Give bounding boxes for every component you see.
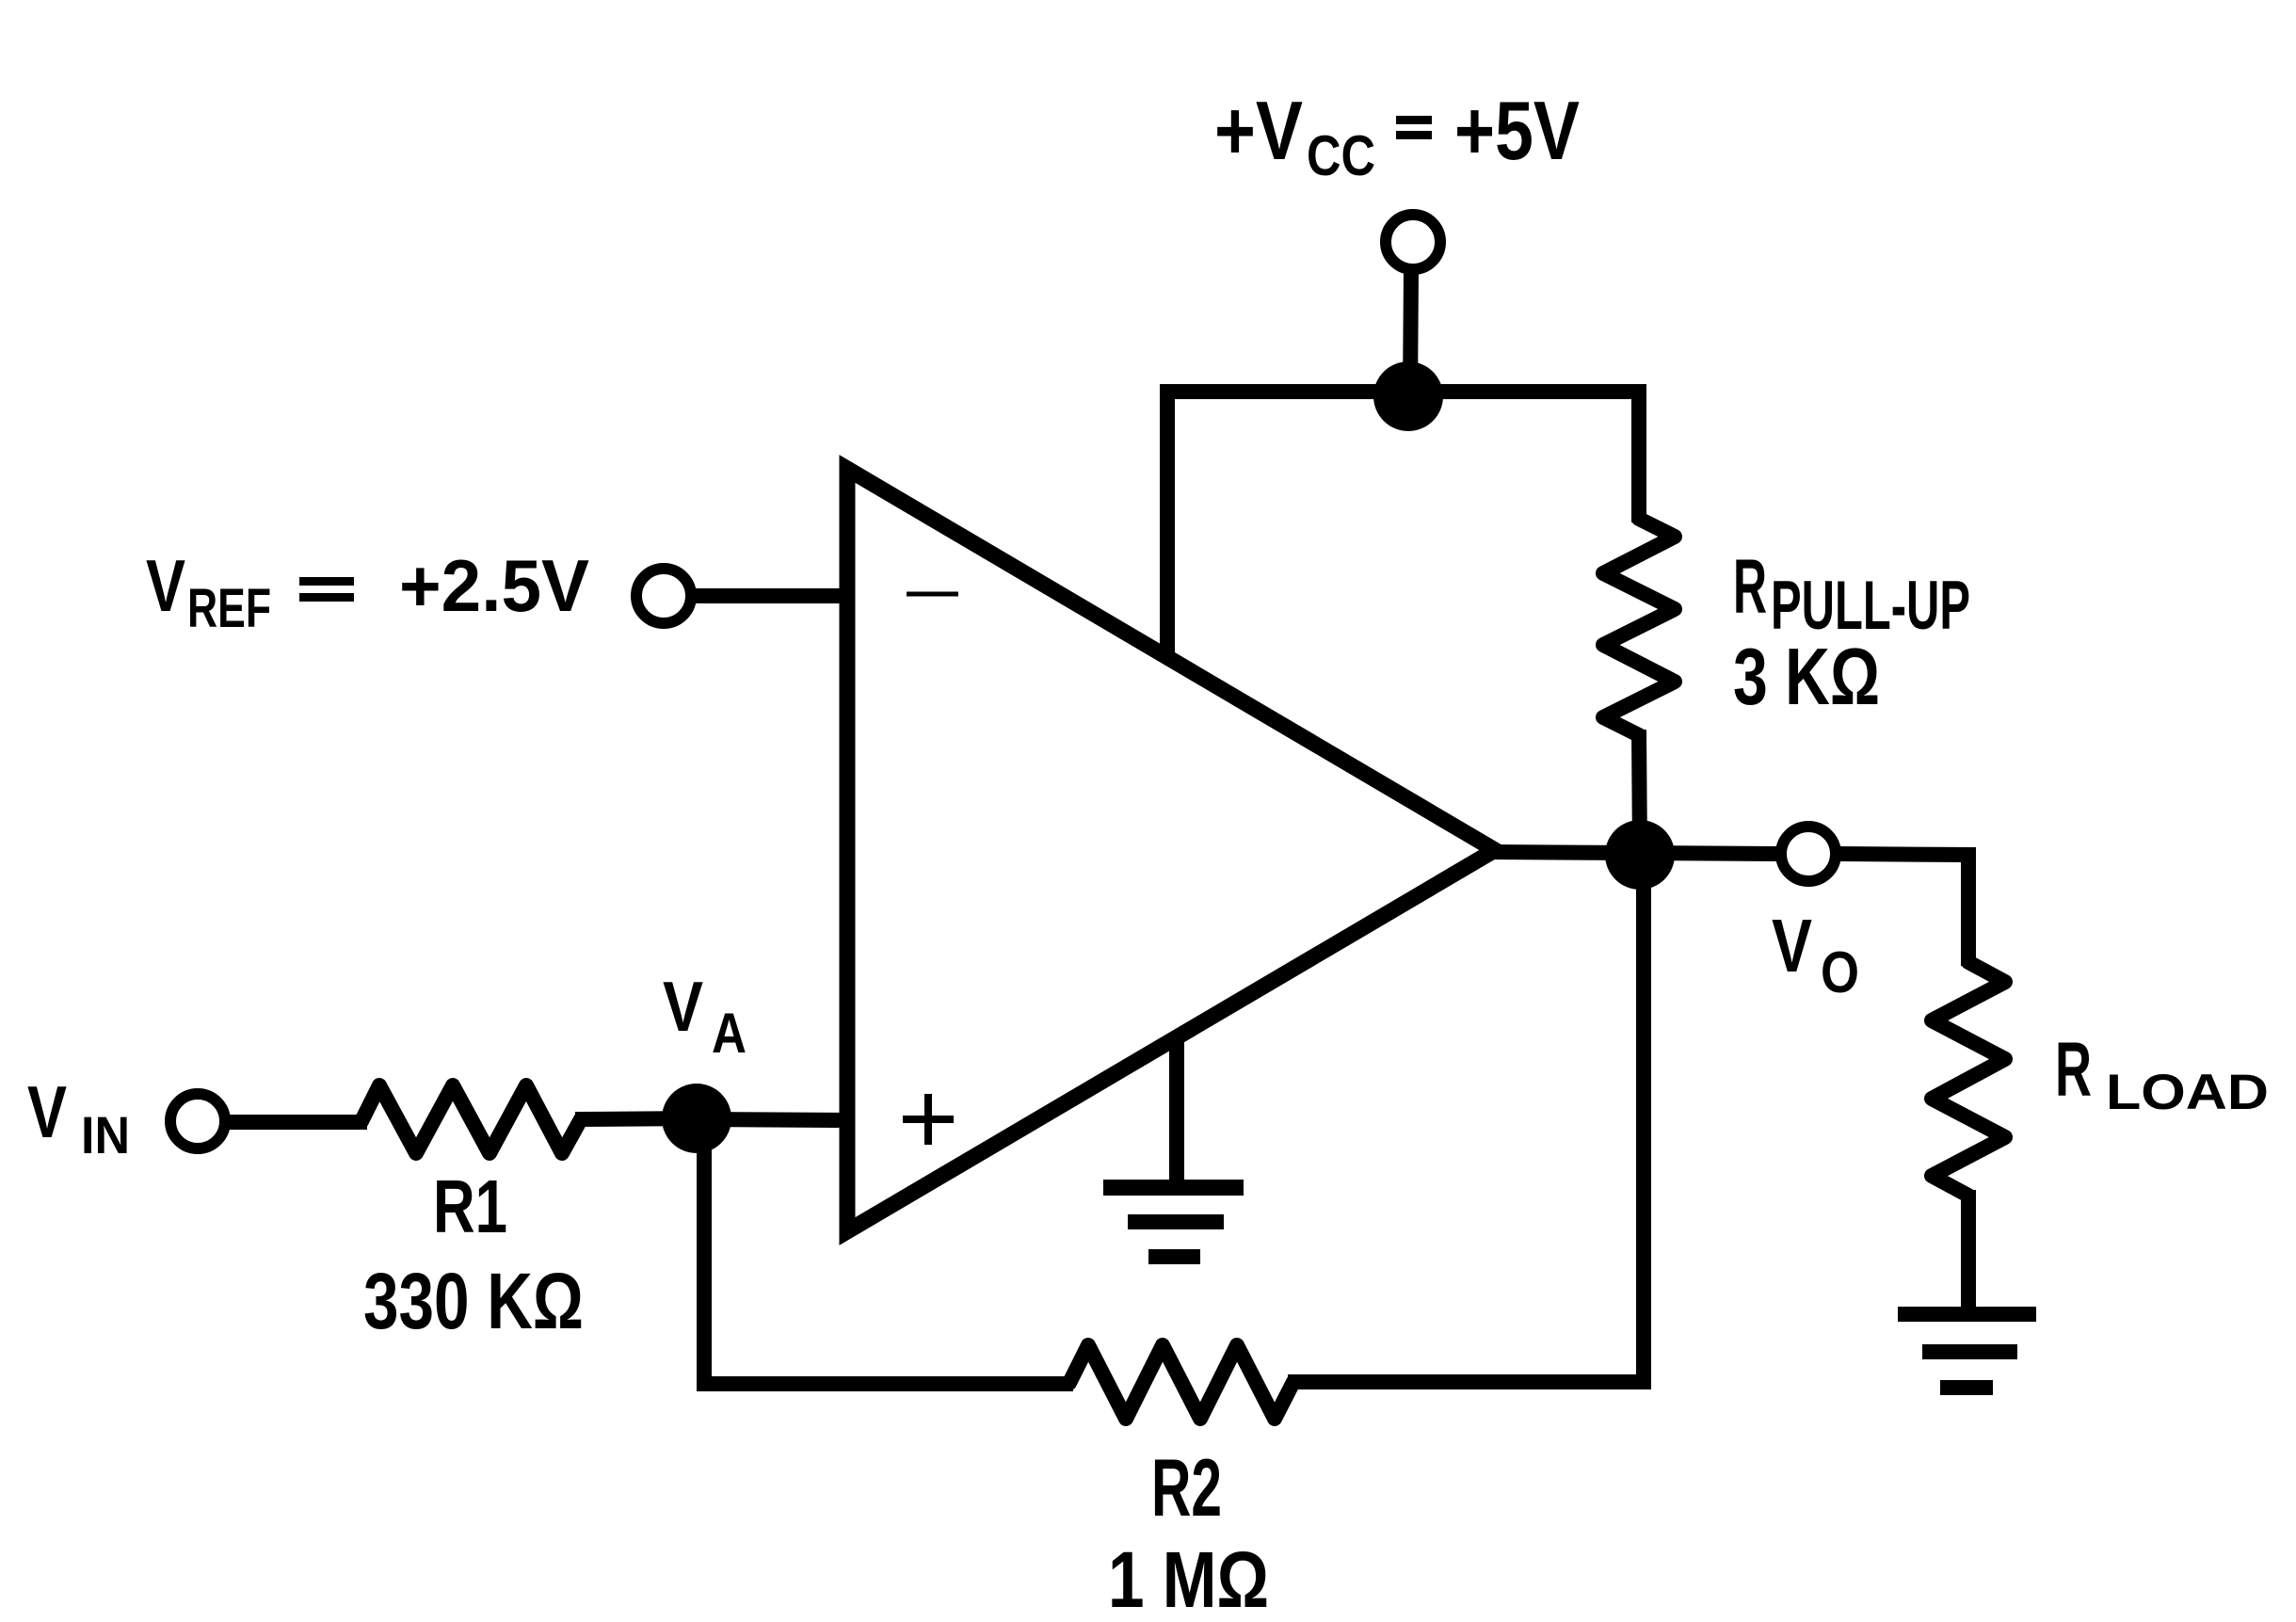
svg-text:R: R bbox=[2055, 1027, 2092, 1113]
svg-text:330 KΩ: 330 KΩ bbox=[363, 1257, 584, 1345]
svg-text:1 MΩ: 1 MΩ bbox=[1108, 1535, 1269, 1622]
svg-text:R2: R2 bbox=[1151, 1443, 1222, 1534]
svg-text:V: V bbox=[663, 967, 703, 1046]
label +VCC = +5V bbox=[1214, 84, 1580, 187]
label R2 value 1 M bbox=[1108, 1443, 1269, 1622]
wire op-amp output to VO terminal bbox=[1487, 852, 1777, 854]
svg-text:V: V bbox=[27, 1070, 67, 1153]
svg-text:R: R bbox=[1733, 544, 1767, 630]
terminal VIN bbox=[170, 1094, 225, 1148]
minus input pin label (inverting) bbox=[907, 592, 958, 597]
resistor R2 1 M zigzag bbox=[1069, 1345, 1293, 1419]
svg-text:+2.5V: +2.5V bbox=[399, 544, 589, 627]
svg-text:V: V bbox=[146, 544, 185, 627]
wire VCC terminal stem bbox=[1410, 268, 1411, 396]
wire VCC top rail with drops to op-amp and RPULL-UP bbox=[1167, 392, 1639, 659]
svg-text:REF: REF bbox=[187, 578, 271, 639]
svg-text:A: A bbox=[712, 1002, 747, 1065]
ground symbol under op-amp bbox=[1103, 1180, 1244, 1264]
resistor RPULL-UP 3 K zigzag bbox=[1603, 519, 1675, 735]
wire ground stub below op-amp bbox=[1169, 1038, 1184, 1182]
svg-text:CC: CC bbox=[1307, 124, 1375, 187]
terminal VO bbox=[1781, 827, 1836, 881]
svg-text:LOAD: LOAD bbox=[2106, 1065, 2269, 1120]
junction dot output node bbox=[1605, 820, 1675, 890]
svg-text:O: O bbox=[1821, 940, 1859, 1005]
resistor R1 330 K zigzag bbox=[361, 1085, 581, 1153]
op-amp U1 comparator triangle bbox=[847, 469, 1495, 1231]
label VO bbox=[1772, 904, 1859, 1005]
label VIN bbox=[27, 1070, 130, 1164]
wire VREF terminal to inverting input bbox=[687, 588, 847, 603]
plus input pin label (non-inverting) bbox=[903, 1094, 954, 1145]
svg-text:+V: +V bbox=[1214, 84, 1303, 177]
terminal VCC bbox=[1386, 215, 1440, 269]
wire RLOAD to ground bbox=[1961, 1190, 1976, 1314]
wire VIN terminal to R1 bbox=[224, 1115, 367, 1130]
label RLOAD bbox=[2055, 1027, 2269, 1120]
svg-text:IN: IN bbox=[81, 1105, 130, 1164]
terminal VREF bbox=[636, 569, 691, 623]
wire VO terminal right then down to RLOAD bbox=[1839, 854, 1968, 966]
wire RPULL-UP to output node bbox=[1639, 730, 1640, 855]
label node VA bbox=[663, 967, 747, 1065]
label RPULL-UP value 3 K bbox=[1733, 544, 1970, 722]
label VREF = +2.5V bbox=[146, 544, 589, 639]
label R1 value 330 K bbox=[363, 1164, 584, 1345]
ground symbol under RLOAD bbox=[1898, 1307, 2036, 1395]
wire bottom rail right and up to output node bbox=[1288, 855, 1644, 1382]
wire VA down and bottom feedback rail left bbox=[704, 1118, 1073, 1384]
junction dot node VA bbox=[662, 1084, 731, 1153]
svg-text:V: V bbox=[1772, 904, 1812, 988]
junction dot VCC rail bbox=[1373, 361, 1443, 431]
svg-text:+5V: +5V bbox=[1454, 84, 1580, 177]
resistor RLOAD zigzag bbox=[1932, 962, 2005, 1196]
wire node VA to non-inverting input bbox=[697, 1119, 847, 1120]
svg-text:R1: R1 bbox=[433, 1164, 507, 1248]
svg-text:3 KΩ: 3 KΩ bbox=[1733, 633, 1880, 722]
wire R1 to node VA bbox=[575, 1118, 701, 1119]
